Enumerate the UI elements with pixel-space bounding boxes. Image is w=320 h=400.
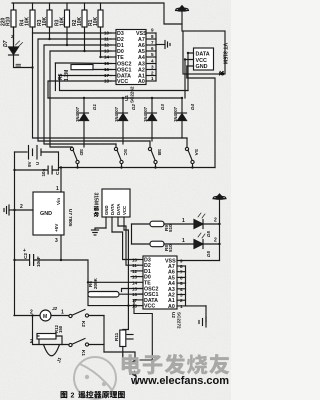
- wire U1 right pin stubs: [146, 33, 156, 81]
- svg-text:A4: A4: [138, 55, 145, 61]
- svg-text:8: 8: [180, 264, 183, 269]
- transistor Q1: [104, 352, 136, 384]
- svg-text:104: 104: [41, 168, 46, 176]
- junction (84.5,51): [83, 50, 85, 52]
- svg-text:2: 2: [30, 339, 33, 345]
- svg-text:VCC: VCC: [196, 58, 207, 64]
- svg-text:15: 15: [104, 61, 110, 66]
- svg-text:SC2262: SC2262: [130, 86, 135, 103]
- svg-text:6: 6: [151, 46, 154, 51]
- svg-text:SD: SD: [79, 149, 84, 156]
- pin labels U1 left: [117, 31, 147, 85]
- junction (88,282.3): [87, 281, 89, 283]
- wire U1 D0 loop to SD: [50, 51, 111, 147]
- svg-text:3: 3: [180, 293, 183, 298]
- svg-text:18: 18: [132, 304, 138, 309]
- resistor R11: [120, 306, 129, 355]
- diode D2 1N4007: [119, 98, 128, 144]
- svg-text:16: 16: [132, 292, 138, 297]
- junction (185,61): [184, 58, 186, 60]
- svg-text:D7: D7: [3, 40, 9, 47]
- svg-text:1: 1: [180, 304, 183, 309]
- regulator U7 7805: [15, 168, 65, 261]
- svg-text:U7 7805: U7 7805: [68, 209, 73, 227]
- svg-text:U1: U1: [124, 95, 129, 101]
- wire RX data to U2: [112, 232, 138, 260]
- junction (14.5,260): [13, 259, 15, 261]
- antenna ANT1: [176, 6, 189, 31]
- wire VT vcc: [185, 60, 194, 99]
- svg-text:DATA: DATA: [116, 204, 121, 215]
- battery U 9V: [15, 146, 59, 171]
- module RX 315M receive: [102, 189, 130, 232]
- svg-text:+: +: [23, 248, 26, 254]
- switch K1: [69, 339, 104, 347]
- diode D3 1N4007: [148, 98, 157, 141]
- svg-text:3: 3: [151, 65, 154, 70]
- ground U1 address: [156, 41, 170, 49]
- node A-line tie U1: [155, 33, 157, 81]
- svg-text:6: 6: [180, 275, 183, 280]
- svg-text:TE: TE: [117, 55, 124, 61]
- svg-text:10K: 10K: [77, 16, 83, 26]
- svg-text:M: M: [43, 314, 47, 320]
- svg-text:1: 1: [151, 76, 154, 81]
- ground RX module: [92, 228, 107, 235]
- svg-text:D1: D1: [92, 104, 97, 110]
- resistor R1 10K: [98, 3, 103, 57]
- junction (84,98): [83, 97, 85, 99]
- svg-text:9: 9: [180, 259, 183, 264]
- svg-text:7: 7: [180, 270, 183, 275]
- svg-text:D4: D4: [190, 104, 195, 110]
- svg-text:7: 7: [151, 40, 154, 45]
- svg-text:10K: 10K: [42, 16, 48, 26]
- svg-text:1: 1: [182, 238, 185, 244]
- svg-text:+5V: +5V: [54, 223, 59, 232]
- svg-text:2: 2: [151, 71, 154, 76]
- switch K2: [69, 310, 104, 318]
- svg-text:2: 2: [214, 218, 217, 224]
- junction (14.5,170): [13, 169, 15, 171]
- wire U1 D2 loop to SB: [38, 39, 150, 141]
- svg-text:4: 4: [151, 59, 154, 64]
- svg-text:1: 1: [182, 218, 185, 224]
- svg-text:4: 4: [180, 287, 183, 292]
- svg-text:K1: K1: [81, 350, 86, 356]
- svg-text:GND: GND: [196, 64, 208, 70]
- wire left rail: [14, 152, 16, 316]
- svg-text:R11: R11: [114, 332, 119, 341]
- junction (155.5,167.5): [154, 166, 156, 168]
- wire RX vcc down: [124, 230, 128, 306]
- wire U1 TE down: [101, 56, 112, 58]
- junction (14.5,210): [13, 209, 15, 211]
- wire RX data2: [118, 226, 138, 265]
- svg-text:VCC: VCC: [144, 304, 155, 310]
- svg-text:SC: SC: [123, 149, 128, 156]
- svg-text:GND: GND: [40, 211, 52, 217]
- capacitor C1 104: [48, 166, 53, 175]
- svg-text:VCC: VCC: [122, 206, 127, 215]
- wire U1 D1 loop to SC: [44, 45, 116, 144]
- svg-text:9: 9: [151, 28, 154, 33]
- antenna ANT2: [213, 194, 226, 261]
- svg-text:SB: SB: [157, 149, 162, 156]
- resistor R2 10K: [82, 3, 87, 51]
- junction (32.5,67.5): [31, 66, 33, 68]
- svg-text:1.2M: 1.2M: [64, 70, 70, 81]
- wire diode common rail: [48, 97, 182, 99]
- svg-text:9V: 9V: [27, 160, 32, 167]
- svg-text:10: 10: [132, 258, 138, 263]
- junction (61,167.5): [60, 166, 62, 168]
- svg-text:315M: 315M: [93, 193, 99, 206]
- junction (61,260): [60, 259, 62, 261]
- svg-text:10K: 10K: [60, 16, 66, 26]
- svg-text:2: 2: [71, 393, 75, 400]
- svg-text:10uF: 10uF: [36, 256, 41, 267]
- svg-text:2: 2: [180, 298, 183, 303]
- resistor R12 150: [37, 334, 62, 345]
- pin numbers U1: [104, 28, 154, 84]
- junction (219.5,244): [218, 243, 220, 245]
- svg-text:1N4007: 1N4007: [75, 106, 80, 122]
- svg-text:VCC: VCC: [117, 79, 128, 85]
- svg-text:SC2272: SC2272: [177, 312, 182, 329]
- LED D7: [9, 27, 23, 55]
- junction (121.5,167.5): [120, 166, 122, 168]
- svg-text:D2: D2: [131, 104, 136, 110]
- svg-text:10K: 10K: [93, 16, 99, 26]
- svg-text:D3: D3: [160, 104, 165, 110]
- ground U2: [199, 306, 206, 327]
- junction (77.5,167.5): [76, 166, 78, 168]
- wire U2 data to Q1: [134, 300, 152, 360]
- svg-text:18: 18: [104, 79, 110, 84]
- svg-text:R10: R10: [6, 17, 12, 26]
- svg-text:1: 1: [61, 310, 64, 316]
- svg-text:D5: D5: [206, 251, 211, 257]
- node mark near D7 wire: [16, 63, 21, 65]
- svg-text:D5: D5: [206, 231, 211, 237]
- svg-text:DATA: DATA: [196, 51, 210, 57]
- svg-text:VT 315M: VT 315M: [222, 43, 228, 64]
- IC U2 SC2272: [143, 256, 177, 309]
- resistor R5 10K: [65, 3, 70, 45]
- ground at 7805 input: [4, 205, 15, 215]
- diode D4 1N4007: [178, 98, 187, 138]
- svg-text:Vin: Vin: [56, 198, 61, 205]
- svg-text:510: 510: [168, 224, 173, 232]
- svg-text:SA: SA: [194, 149, 199, 156]
- junction (100.5,57): [99, 56, 101, 58]
- junction (123,98): [122, 97, 124, 99]
- svg-text:17: 17: [132, 298, 138, 303]
- resistor R9 510: [132, 221, 194, 227]
- node U2 address tie: [185, 266, 187, 306]
- svg-text:5: 5: [180, 281, 183, 286]
- svg-text:12: 12: [104, 43, 110, 48]
- wire +5V to U2 vcc: [61, 260, 139, 306]
- wire top supply bus: [12, 3, 182, 24]
- svg-text:10: 10: [104, 31, 110, 36]
- wire VT gnd: [187, 66, 215, 168]
- svg-text:A0: A0: [168, 304, 175, 310]
- wire LED feed link: [131, 224, 133, 244]
- svg-text:J2: J2: [52, 306, 58, 311]
- svg-text:TE: TE: [144, 280, 151, 286]
- wire D7 to lower rail: [14, 55, 33, 68]
- svg-text:2: 2: [214, 238, 217, 244]
- wire U1 D3 loop to SA: [33, 33, 188, 138]
- junction (32.5,315.5): [31, 314, 33, 316]
- switch SA: [185, 138, 194, 168]
- switch SB: [148, 141, 157, 168]
- junction (128.4,305.6): [127, 304, 129, 306]
- junction (188,55): [187, 52, 189, 54]
- LED D6: [194, 233, 220, 249]
- wire branch to R12 row: [33, 316, 70, 345]
- junction (67,45): [66, 44, 68, 46]
- junction (152,98): [151, 97, 153, 99]
- svg-text:8: 8: [151, 34, 154, 39]
- svg-text:11: 11: [132, 263, 137, 268]
- resistor R8 510: [132, 241, 194, 247]
- svg-text:14: 14: [104, 55, 110, 60]
- wire U1 VCC rail: [48, 81, 111, 98]
- motor J2: [14, 310, 69, 321]
- svg-text:1: 1: [56, 186, 59, 192]
- IC U1 SC2262: [116, 30, 146, 85]
- wire U2 left pin stubs: [88, 260, 143, 306]
- wire U2 right pin stubs: [177, 261, 220, 306]
- junction (49.5,39): [48, 38, 50, 40]
- svg-text:GND: GND: [104, 205, 109, 215]
- svg-text:13: 13: [104, 49, 110, 54]
- svg-text:3: 3: [55, 238, 58, 244]
- svg-text:16: 16: [104, 67, 110, 72]
- svg-text:15: 15: [132, 287, 138, 292]
- wire relay right rail: [103, 316, 105, 353]
- svg-text:1N4007: 1N4007: [173, 106, 178, 122]
- caption: [61, 391, 125, 400]
- wire VT data: [188, 53, 194, 91]
- capacitor C2 10uF: [15, 254, 62, 266]
- watermark text: [122, 354, 230, 387]
- svg-text:10K: 10K: [25, 16, 31, 26]
- svg-text:1N4007: 1N4007: [143, 106, 148, 122]
- resistor R6 200K: [88, 289, 143, 298]
- pin labels U2 left: [144, 258, 176, 310]
- resistor R10 220: [11, 3, 16, 47]
- buzzer J1: [44, 345, 60, 356]
- LED D5: [194, 213, 220, 229]
- svg-text:K2: K2: [81, 321, 86, 327]
- svg-text:13: 13: [132, 275, 138, 280]
- junction (219.5,224): [218, 223, 220, 225]
- resistor R5 1.2M: [55, 63, 111, 91]
- svg-text:12: 12: [132, 269, 138, 274]
- svg-text:1N4007: 1N4007: [114, 106, 119, 122]
- capacitor C3: [127, 335, 133, 340]
- svg-text:C1: C1: [55, 169, 60, 175]
- junction (192.5,167.5): [191, 166, 193, 168]
- svg-text:A0: A0: [138, 79, 145, 85]
- wire U1 left pin stubs: [111, 33, 116, 81]
- svg-text:17: 17: [104, 73, 110, 78]
- svg-text:11: 11: [104, 37, 109, 42]
- svg-text:14: 14: [132, 280, 138, 285]
- pin numbers U2: [132, 258, 183, 309]
- svg-text:www.elecfans.com: www.elecfans.com: [130, 375, 229, 387]
- junction (182,98): [181, 97, 183, 99]
- watermark logo: [74, 357, 116, 399]
- svg-text:510: 510: [168, 244, 173, 252]
- svg-text:U2: U2: [171, 312, 176, 318]
- switch SD: [70, 147, 79, 168]
- resistor R3 10K: [47, 3, 52, 39]
- svg-text:200K: 200K: [93, 277, 98, 289]
- resistor R4 10K: [30, 3, 35, 33]
- svg-text:2: 2: [30, 310, 33, 316]
- wire bottom bus: [15, 168, 216, 171]
- switch SC: [114, 144, 123, 168]
- svg-text:DATA: DATA: [110, 204, 115, 215]
- diode D1 1N4007: [80, 98, 89, 147]
- module VT315M transmit: [183, 31, 225, 74]
- svg-text:2: 2: [11, 34, 14, 39]
- svg-text:150: 150: [58, 325, 63, 333]
- svg-text:2: 2: [20, 204, 23, 210]
- svg-text:5: 5: [151, 52, 154, 57]
